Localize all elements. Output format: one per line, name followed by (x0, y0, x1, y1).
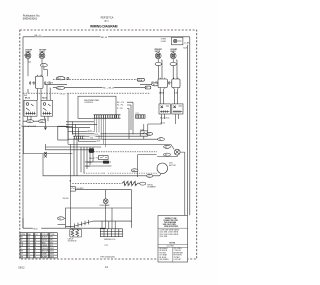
surface switch SW3 (158, 78, 167, 89)
EOC pin strip (94, 115, 121, 118)
svg-text:W – P4: W – P4 (117, 105, 123, 107)
svg-text:L1-BK: L1-BK (184, 43, 190, 45)
connector P11 block (136, 113, 146, 118)
wire labels rail y121 (23, 120, 45, 124)
svg-text:16: 16 (28, 254, 30, 256)
svg-text:RD-250: RD-250 (63, 198, 69, 200)
svg-text:FEF357CA: FEF357CA (101, 16, 114, 20)
wires lower cluster (85, 162, 112, 166)
legend mini table (160, 246, 184, 261)
terminals left of SW1 (30, 81, 35, 84)
label on top bus left (34, 33, 44, 37)
wires box B down to rail (45, 116, 49, 121)
connector comb mid (73, 136, 85, 139)
svg-text:P8-1: P8-1 (57, 78, 61, 80)
svg-text:BLACK: BLACK (42, 236, 48, 239)
svg-text:ORNG: ORNG (42, 245, 48, 247)
oval label L1 line (146, 132, 152, 136)
surface switch SW1 (left) (36, 75, 44, 90)
svg-text:MOTOR: MOTOR (169, 165, 176, 167)
surface element SU2 label (39, 50, 46, 54)
bake element (66, 220, 132, 228)
surface element SU4 label (170, 49, 177, 53)
label broil element (148, 184, 157, 188)
oven lamp symbol (99, 199, 110, 207)
svg-text:P1: P1 (59, 218, 61, 220)
labels on lower bus (103, 86, 115, 90)
svg-text:P12: P12 (105, 245, 108, 247)
svg-text:GN GREEN: GN GREEN (160, 259, 170, 261)
legend paragraph (160, 228, 180, 238)
wire SU2 down to switch (42, 63, 47, 77)
wire color table (20, 233, 57, 258)
svg-text:OR-16: OR-16 (85, 166, 90, 168)
surface element SU1 label (25, 50, 32, 54)
svg-text:V VIOLET: V VIOLET (174, 259, 182, 261)
junction X at loop corner (44, 152, 47, 157)
wire: mid bus across (45, 83, 152, 85)
svg-text:BK – 8: BK – 8 (35, 35, 42, 37)
relay box lower cluster (99, 156, 109, 160)
wire grid horizontals (45, 132, 163, 150)
svg-text:P/N 316246200: P/N 316246200 (100, 257, 115, 259)
wire grid verticals (45, 93, 78, 150)
oven thermostat (left box B) (41, 100, 53, 116)
wire loop mid-left (23, 127, 72, 154)
svg-text:SEW: SEW (50, 251, 54, 253)
wire: dashed broil feed (72, 183, 122, 185)
svg-text:R-16: R-16 (95, 134, 99, 136)
oval label motor feed (131, 169, 138, 173)
svg-text:P7: P7 (148, 176, 150, 178)
oval label under SU2 (41, 64, 48, 68)
connector blob on lower bus (145, 86, 151, 90)
svg-text:P6: P6 (165, 155, 167, 157)
svg-text:SF2: SF2 (50, 240, 53, 242)
svg-text:Y-16: Y-16 (90, 137, 93, 139)
wire lamp vertical (105, 190, 107, 208)
svg-text:YELLW: YELLW (42, 248, 48, 250)
arrow component on loop (44, 119, 46, 130)
svg-text:P14: P14 (40, 121, 43, 123)
svg-text:CONTROL: CONTROL (84, 102, 93, 104)
terminals between SW3 SW4 (168, 81, 171, 84)
svg-text:OVEN LAMP: OVEN LAMP (99, 204, 110, 207)
oven switch right A (159, 104, 170, 114)
svg-text:WHITE: WHITE (42, 240, 48, 242)
svg-text:P5: P5 (165, 147, 167, 149)
svg-text:P2: P2 (153, 84, 155, 86)
wire: lower bus across (53, 87, 145, 89)
svg-text:(ALL): (ALL) (104, 19, 109, 22)
svg-text:RELAY: RELAY (89, 157, 95, 160)
svg-text:COLOR: COLOR (42, 234, 49, 236)
junction circle on dashed bus (67, 77, 69, 79)
door lock motor (157, 163, 168, 174)
terminals left of SW3 (152, 81, 157, 84)
tick labels on left bus (24, 55, 27, 97)
oval label under SU3 (155, 63, 161, 66)
svg-text:ELEMENT: ELEMENT (148, 187, 157, 189)
svg-text:BK-16: BK-16 (88, 162, 93, 164)
svg-text:18: 18 (28, 256, 30, 258)
svg-text:P3: P3 (148, 134, 150, 136)
svg-text:10: 10 (28, 240, 30, 242)
svg-text:V-16: V-16 (97, 141, 100, 143)
wire: dashed rail y93 (23, 92, 150, 94)
electronic oven control EOC (78, 96, 116, 118)
svg-text:V-16: V-16 (101, 173, 105, 175)
dashed page border (20, 30, 197, 259)
warmer element coils (70, 229, 82, 237)
wire hi-limit to right (75, 189, 131, 191)
table cell text (21, 233, 56, 258)
oval label under SU4 (170, 63, 176, 66)
wire SU4 to switch (173, 60, 177, 79)
svg-text:10: 10 (28, 237, 30, 239)
svg-text:14: 14 (28, 248, 30, 250)
wire left drop to junction (69, 144, 71, 186)
wire hi-limit down (69, 191, 71, 228)
label on rail y93 (60, 92, 66, 95)
svg-text:SEW: SEW (50, 256, 54, 258)
svg-text:W-14: W-14 (60, 93, 64, 95)
broil element (122, 181, 140, 187)
oval label P6 (164, 153, 171, 157)
oval label broil (140, 182, 146, 185)
svg-text:WIRING DIAGRAM: WIRING DIAGRAM (90, 24, 118, 28)
svg-text:BK-10: BK-10 (101, 37, 108, 39)
oval label on lower bus (56, 86, 65, 90)
svg-text:SOLENOID: SOLENOID (68, 241, 78, 243)
wire SU3 to switch (158, 60, 162, 79)
ribbon verticals to lower cluster (74, 139, 93, 176)
svg-text:SEW: SEW (50, 254, 54, 256)
legend box (158, 216, 188, 263)
svg-text:PURPL: PURPL (42, 256, 48, 258)
oval label on loop left (57, 217, 65, 221)
surface switch SW4 (172, 78, 180, 89)
wire: dashed bus L2 across (53, 79, 137, 81)
connector blob lower (103, 161, 109, 164)
label on top bus (101, 35, 109, 39)
svg-text:RD-16: RD-16 (42, 98, 47, 100)
labels lower cluster (85, 162, 92, 168)
svg-text:200C MIN.: 200C MIN. (160, 236, 169, 238)
label door motor (169, 163, 176, 167)
svg-text:NOTE: NOTE (170, 242, 176, 244)
tick label motor feed (101, 172, 108, 176)
svg-text:12: 12 (28, 242, 30, 244)
svg-text:P4: P4 (159, 139, 161, 141)
wire into table (22, 218, 24, 228)
wires SW3 SW4 down (160, 89, 177, 104)
wire TOD down (143, 124, 145, 139)
wires SW1 down to oven switches (28, 85, 50, 100)
svg-text:SF2: SF2 (50, 242, 53, 244)
surface element SU3 label (155, 49, 162, 53)
svg-text:RD — BK-12: RD — BK-12 (103, 87, 114, 89)
wire dashed motor feed (84, 172, 157, 174)
svg-text:TERM BLOCK: TERM BLOCK (104, 239, 116, 241)
publication number header (23, 13, 41, 20)
tick label on bottom bus (33, 227, 41, 231)
extra grid horizontals (66, 122, 97, 128)
oval label P10 (146, 174, 152, 178)
label warmer (68, 238, 78, 243)
terminal block (100, 229, 122, 237)
svg-text:5995419061: 5995419061 (23, 16, 38, 20)
label relay box (89, 157, 98, 160)
wire: top supply bus (23, 36, 190, 38)
labels under right switches (160, 117, 169, 124)
svg-text:P8-2: P8-2 (57, 88, 61, 90)
EOC right pin labels (117, 102, 124, 110)
svg-text:SEW: SEW (50, 248, 54, 250)
svg-text:BROWN: BROWN (42, 251, 49, 253)
wire bottom bus (23, 227, 105, 229)
svg-text:R – P6: R – P6 (117, 108, 123, 110)
svg-text:SF2: SF2 (50, 237, 53, 239)
oven light box (top right) (172, 37, 183, 45)
svg-text:16: 16 (28, 251, 30, 253)
svg-text:LIGHT: LIGHT (161, 41, 167, 43)
wires EOC right to bus (127, 102, 133, 139)
small box component TOD (140, 130, 148, 137)
svg-text:W-10: W-10 (33, 228, 37, 230)
wires box A down to rail (28, 116, 32, 121)
svg-text:W-16: W-16 (88, 131, 92, 133)
terminals right of SW1 (45, 81, 53, 84)
junction node (70, 180, 71, 181)
wires into terminal block (102, 208, 115, 229)
oval label on mid bus (152, 83, 158, 87)
oven selector switch (left box A) (24, 100, 37, 116)
hi-limit box (70, 187, 84, 191)
connector blob on dashed bus (137, 78, 144, 82)
svg-text:WIRE SPECIFIED: WIRE SPECIFIED (164, 226, 179, 228)
wires under right switches (148, 114, 179, 131)
relay box mid-left (58, 126, 68, 140)
svg-text:0902: 0902 (18, 266, 25, 269)
oval label P5 (164, 145, 171, 149)
connector blob P10 (89, 149, 94, 153)
tiny wire labels mid band (87, 129, 102, 143)
wire: right bus pair down (189, 37, 191, 215)
label oven light (161, 39, 167, 43)
svg-text:P9: P9 (133, 170, 135, 172)
wires EOC pins down (95, 118, 106, 147)
wire dashed to motor (94, 151, 157, 153)
stub wire above bus (58, 224, 66, 226)
oven cavity lamp (174, 149, 180, 155)
wire SU1 down to switch (28, 59, 31, 77)
surface element SU2 (39, 52, 45, 63)
svg-text:P7: P7 (146, 88, 148, 90)
svg-text:BK – P3: BK – P3 (117, 102, 124, 104)
svg-text:P13: P13 (28, 121, 31, 123)
oval label P4 (158, 138, 165, 142)
oval label on dashed bus (56, 77, 65, 81)
wire to oven lamp circle (164, 144, 175, 149)
svg-text:SF2: SF2 (50, 245, 53, 247)
oven wire loop (66, 190, 132, 228)
surface element SU4 (170, 52, 176, 63)
wire: left neutral bus down (22, 37, 24, 228)
legend table lines (158, 244, 188, 262)
oven switch right B (172, 104, 183, 114)
wire lamp to right bus (157, 152, 185, 215)
labels L1 / N on right bus (183, 43, 190, 50)
surface element SU3 (155, 52, 161, 63)
wire frame to motor (138, 155, 157, 177)
svg-text:BK-16: BK-16 (25, 98, 30, 100)
model number header (101, 16, 114, 23)
surface element SU1 (25, 52, 31, 61)
wire motor bottom long run (43, 154, 161, 176)
svg-text:N-W: N-W (183, 48, 187, 50)
legend header text (163, 218, 179, 228)
svg-text:14: 14 (28, 245, 30, 247)
